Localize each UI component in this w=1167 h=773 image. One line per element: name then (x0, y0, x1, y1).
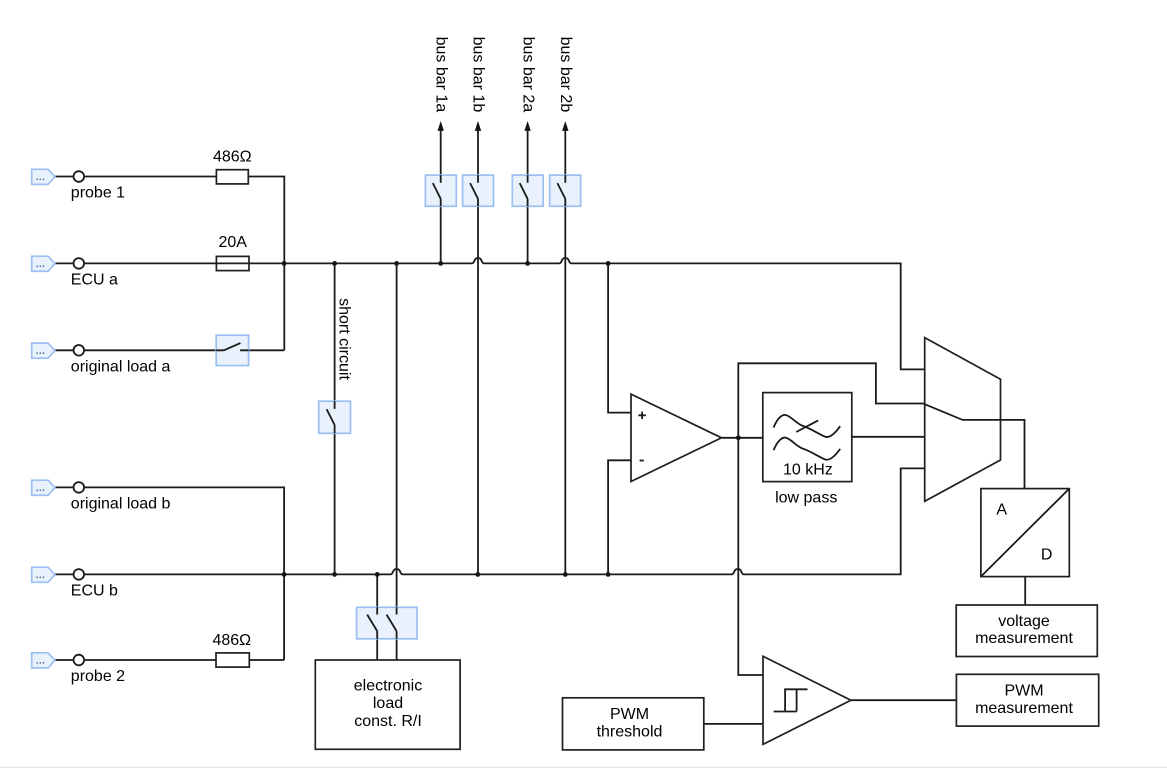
wire A/D to voltage measurement (1024, 577, 1026, 605)
bus bar 2a (519, 37, 536, 264)
svg-text:486Ω: 486Ω (212, 632, 251, 649)
label short circuit (336, 298, 353, 380)
svg-text:electronic: electronic (354, 678, 422, 695)
junction dots ECU a (282, 261, 611, 266)
wire low pass output (852, 436, 925, 438)
svg-text:bus bar 2b: bus bar 2b (557, 37, 574, 113)
svg-text:original load a: original load a (71, 358, 171, 375)
svg-text:voltage: voltage (998, 613, 1050, 630)
fuse 20A (216, 234, 249, 271)
switch short circuit (319, 401, 351, 433)
wire original load a row (55, 349, 284, 351)
switch original load a (216, 335, 248, 365)
connector ECU a (32, 256, 118, 288)
svg-text:PWM: PWM (610, 706, 649, 723)
wire electronic load right (396, 263, 398, 660)
switch bus bar 1a (425, 175, 456, 206)
svg-text:short circuit: short circuit (336, 298, 353, 380)
svg-text:const. R/I: const. R/I (354, 713, 422, 730)
voltage measurement box (956, 605, 1097, 657)
svg-text:D: D (1041, 547, 1053, 564)
bus bar 2b (557, 37, 574, 575)
resistor 486 ohm top (213, 148, 252, 184)
svg-text:original load b: original load b (71, 495, 171, 512)
svg-text:486Ω: 486Ω (213, 148, 252, 165)
svg-text:20A: 20A (218, 234, 247, 251)
svg-text:A: A (996, 502, 1007, 519)
bus bar 1a (432, 37, 449, 264)
junction dots ECU b (282, 572, 611, 577)
svg-text:load: load (373, 695, 403, 712)
junction op-amp output (736, 435, 741, 440)
svg-text:measurement: measurement (975, 630, 1073, 647)
low pass filter box (763, 393, 852, 482)
wire op-amp minus input (608, 460, 631, 574)
svg-text:ECU b: ECU b (71, 582, 118, 599)
switch bus bar 1b (463, 175, 494, 206)
svg-text:low pass: low pass (775, 490, 837, 507)
svg-text:measurement: measurement (975, 700, 1073, 717)
switch double electronic load (357, 607, 418, 639)
wire op-amp output (722, 437, 763, 439)
connector probe 1 (32, 169, 125, 201)
switch bus bar 2a (512, 175, 543, 206)
wire PWM threshold to schmitt (704, 723, 763, 725)
svg-text:bus bar 1a: bus bar 1a (432, 37, 449, 113)
svg-text:PWM: PWM (1004, 683, 1043, 700)
wire probe 2 row (55, 659, 284, 661)
wire ECU a row (55, 258, 925, 369)
wire short circuit vertical (334, 263, 336, 574)
switch bus bar 2b (550, 175, 581, 206)
PWM threshold box (563, 698, 704, 750)
schmitt trigger comparator (763, 656, 851, 744)
multiplexer (925, 338, 1025, 502)
svg-text:bus bar 2a: bus bar 2a (519, 37, 536, 113)
page divider line (0, 766, 1167, 768)
svg-text:ECU a: ECU a (71, 271, 118, 288)
PWM measurement box (956, 674, 1098, 726)
wire probe 1 row (55, 177, 284, 351)
connector probe 2 (32, 653, 125, 685)
connector ECU b (32, 567, 118, 599)
electronic load box (315, 660, 460, 749)
wire to schmitt trigger (738, 438, 763, 675)
connector original load b (32, 480, 171, 512)
connector original load a (32, 343, 171, 375)
A/D converter (981, 489, 1069, 577)
svg-text:threshold: threshold (597, 724, 663, 741)
wire schmitt output (851, 699, 957, 701)
wire bypass to mux (738, 363, 924, 438)
resistor 486 ohm bottom (212, 632, 251, 667)
label low pass (775, 490, 837, 507)
wire original load b row (55, 487, 284, 660)
svg-text:probe 2: probe 2 (71, 668, 125, 685)
bus bar 1b (470, 37, 487, 575)
wire electronic load left (376, 574, 378, 660)
svg-text:10 kHz: 10 kHz (783, 462, 833, 479)
op-amp U1 (631, 394, 722, 481)
svg-text:bus bar 1b: bus bar 1b (470, 37, 487, 113)
wire ECU b row (55, 468, 925, 574)
svg-text:probe 1: probe 1 (71, 185, 125, 202)
wire op-amp plus input (608, 263, 631, 412)
